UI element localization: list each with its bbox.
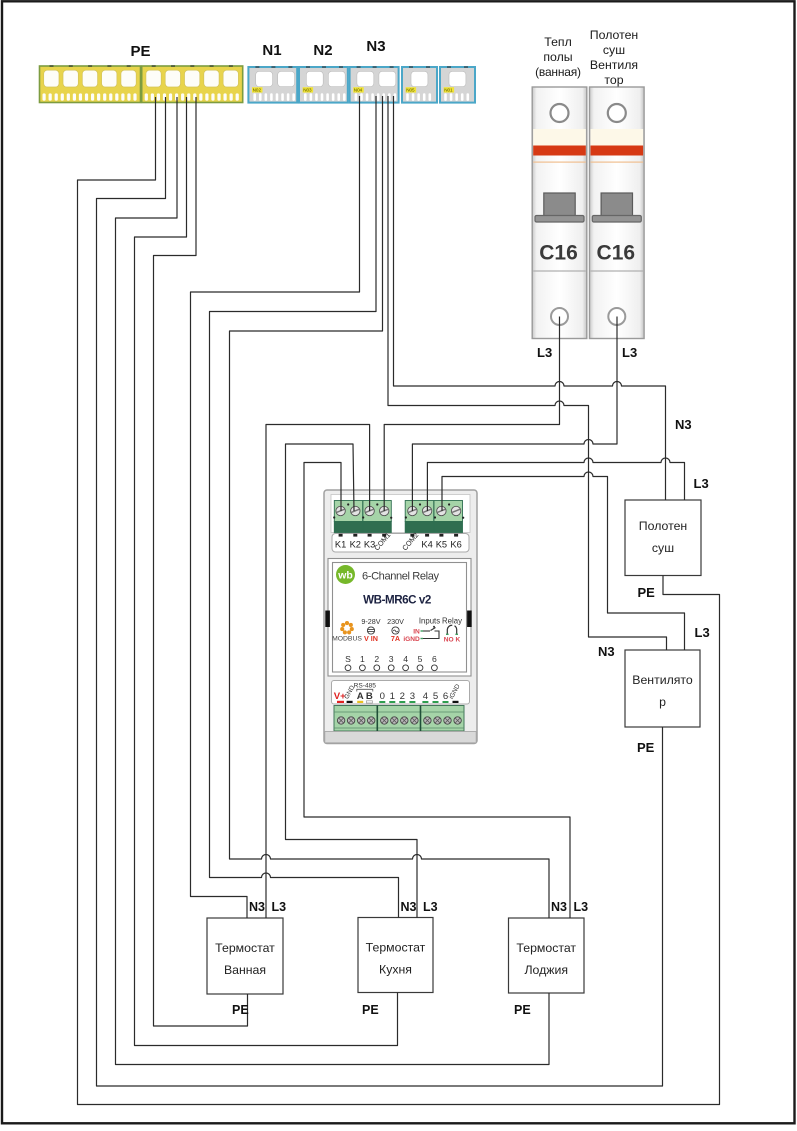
svg-text:полы: полы (543, 50, 572, 64)
relay top terminal group right COM2-K6 (405, 501, 462, 533)
svg-text:5: 5 (418, 654, 423, 664)
svg-text:L3: L3 (695, 625, 710, 640)
svg-text:S: S (345, 654, 351, 664)
circuit breaker QF2 C16 (590, 87, 645, 339)
N terminal block N01 (440, 66, 475, 102)
svg-text:N3: N3 (675, 417, 692, 432)
svg-text:9-28V: 9-28V (361, 617, 380, 626)
relay bottom label strip V+ GND A B 0-6 iGND (332, 681, 470, 705)
svg-text:N02: N02 (253, 88, 262, 93)
svg-text:PE: PE (130, 43, 150, 60)
svg-text:C16: C16 (597, 242, 636, 265)
svg-text:MODBUS: MODBUS (332, 636, 362, 643)
svg-text:Вентилято: Вентилято (632, 673, 693, 687)
svg-text:NO K: NO K (444, 637, 461, 644)
svg-text:N03: N03 (303, 88, 312, 93)
modbus flower icon (340, 621, 354, 634)
N terminal block N03 (299, 66, 348, 102)
relay module U1 WB-MR6C v2 body (324, 490, 477, 744)
svg-text:Термостат: Термостат (516, 941, 576, 955)
relay top terminal group left K1-COM1 (334, 501, 391, 533)
230V icon (387, 617, 404, 643)
wire relay K1 to thermostat loggia L3 (304, 463, 570, 919)
wire relay K3 to thermostat bathroom L3 (266, 425, 370, 919)
svg-text:PE: PE (362, 1003, 379, 1017)
svg-text:K1: K1 (335, 540, 346, 550)
PE terminal block 1 (40, 65, 141, 102)
svg-text:B: B (366, 691, 373, 702)
wire L3 QF2 to relay COM2 (412, 317, 617, 512)
N terminal block N05 (402, 66, 437, 102)
svg-text:6: 6 (432, 654, 437, 664)
svg-text:(ванная): (ванная) (535, 65, 581, 79)
wire N3 to fan (388, 96, 667, 650)
Inputs icon (403, 617, 440, 644)
box thermostat bathroom (207, 918, 283, 994)
svg-text:L3: L3 (537, 345, 552, 360)
svg-text:N2: N2 (313, 42, 332, 59)
box thermostat kitchen (358, 918, 433, 993)
svg-text:L3: L3 (574, 900, 589, 914)
svg-text:N05: N05 (406, 88, 415, 93)
svg-text:Вентиля: Вентиля (590, 58, 638, 72)
wire PE to thermostat bathroom (154, 97, 248, 1026)
svg-text:тор: тор (604, 73, 623, 87)
svg-text:3: 3 (389, 654, 394, 664)
svg-text:Термостат: Термостат (215, 941, 275, 955)
svg-text:PE: PE (514, 1003, 531, 1017)
svg-text:Кухня: Кухня (379, 963, 412, 977)
svg-text:0: 0 (380, 691, 385, 702)
svg-text:L3: L3 (622, 345, 637, 360)
status LEDs S 1-6 (345, 654, 437, 671)
svg-text:2: 2 (400, 691, 405, 702)
wire relay K4 to towel dryer L3 (427, 458, 684, 511)
circuit breaker QF1 C16 (532, 87, 587, 339)
N terminal block N02 (248, 66, 297, 102)
wb logo (336, 565, 355, 584)
svg-text:K5: K5 (436, 540, 447, 550)
svg-text:L3: L3 (423, 900, 438, 914)
svg-text:Полотен: Полотен (639, 519, 687, 533)
svg-text:N3: N3 (401, 900, 417, 914)
svg-text:K4: K4 (421, 540, 432, 550)
N terminal block N04 (350, 66, 399, 102)
svg-text:IN: IN (413, 629, 420, 636)
svg-text:2: 2 (374, 654, 379, 664)
svg-text:Термостат: Термостат (366, 941, 426, 955)
Relay icon (442, 617, 462, 644)
svg-text:суш: суш (652, 541, 674, 555)
svg-text:PE: PE (232, 1003, 249, 1017)
svg-text:Ванная: Ванная (224, 963, 266, 977)
svg-text:Лоджия: Лоджия (524, 963, 568, 977)
svg-text:wb: wb (337, 570, 353, 582)
svg-text:Полотен: Полотен (590, 28, 638, 42)
box fan (Вентилятор) (625, 650, 700, 727)
svg-text:N3: N3 (551, 900, 567, 914)
svg-text:1: 1 (360, 654, 365, 664)
svg-text:Relay: Relay (442, 617, 462, 626)
svg-text:4: 4 (403, 654, 408, 664)
wire PE to thermostat kitchen (135, 97, 398, 1046)
svg-text:5: 5 (433, 691, 438, 702)
svg-text:Inputs: Inputs (419, 617, 440, 626)
svg-text:L3: L3 (694, 476, 709, 491)
relay bottom gray strip (325, 732, 476, 743)
svg-text:K2: K2 (350, 540, 361, 550)
wire relay K5 to fan L3 (442, 472, 685, 650)
wire PE to thermostat loggia (116, 97, 550, 1065)
svg-text:N3: N3 (249, 900, 265, 914)
svg-text:р: р (659, 695, 666, 709)
svg-text:C16: C16 (539, 242, 578, 265)
svg-text:A: A (357, 691, 364, 702)
svg-text:N3: N3 (366, 38, 385, 55)
svg-text:230V: 230V (387, 617, 404, 626)
svg-text:K6: K6 (450, 540, 461, 550)
svg-text:1: 1 (390, 691, 395, 702)
svg-text:N01: N01 (444, 88, 453, 93)
svg-text:iGND: iGND (403, 636, 420, 643)
svg-text:4: 4 (423, 691, 429, 702)
relay side clips (325, 611, 330, 628)
relay center panel (328, 559, 471, 677)
wire N3 to thermostat bathroom (191, 96, 360, 918)
svg-text:N04: N04 (354, 88, 363, 93)
svg-text:6-Channel Relay: 6-Channel Relay (362, 571, 439, 583)
wire L3 QF1 to relay COM1 (384, 317, 559, 512)
svg-text:WB-MR6C v2: WB-MR6C v2 (363, 594, 431, 607)
wire N3 to thermostat loggia (230, 96, 550, 918)
wire PE to towel dryer (78, 97, 720, 1105)
svg-text:3: 3 (410, 691, 415, 702)
svg-text:N1: N1 (262, 42, 281, 59)
svg-text:Тепл: Тепл (544, 35, 572, 49)
relay bottom terminal block (334, 706, 464, 732)
svg-text:RS-485: RS-485 (354, 683, 377, 690)
wire N3 to towel dryer (394, 96, 666, 500)
V IN icon (361, 617, 380, 643)
wire N3 to thermostat kitchen (210, 96, 399, 918)
PE terminal block 2 (142, 65, 243, 102)
wire PE to fan (97, 97, 663, 1086)
svg-text:L3: L3 (272, 900, 287, 914)
svg-text:7A: 7A (391, 634, 400, 643)
relay terminal label strip K1..K6 (332, 531, 469, 553)
box towel dryer (Полотен суш) (625, 500, 701, 576)
box thermostat loggia (509, 918, 585, 993)
svg-text:PE: PE (638, 585, 656, 600)
relay top terminal screws (333, 503, 464, 518)
svg-text:PE: PE (637, 740, 655, 755)
svg-text:N3: N3 (598, 644, 615, 659)
svg-text:V IN: V IN (364, 634, 378, 643)
wire relay K2 to thermostat kitchen L3 (286, 444, 418, 918)
svg-text:суш: суш (603, 43, 625, 57)
